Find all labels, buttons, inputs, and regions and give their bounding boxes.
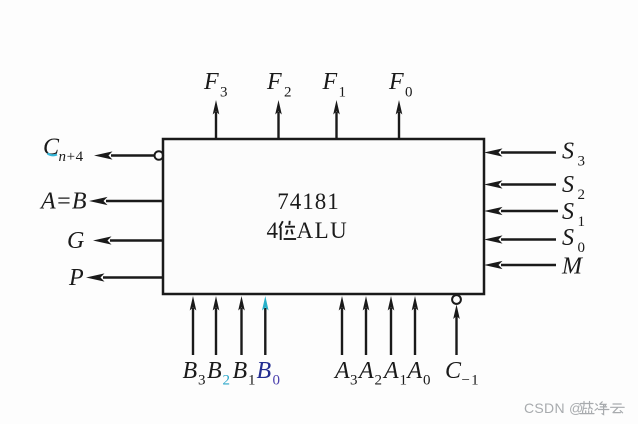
svg-text:2: 2 (578, 187, 586, 203)
output P: wire, arrowhead, label (86, 273, 163, 281)
svg-text:B: B (233, 358, 248, 384)
svg-text:1: 1 (339, 85, 347, 101)
svg-text:1: 1 (578, 214, 586, 230)
input C-1: wire, arrowhead, label (453, 305, 460, 356)
svg-text:A=B: A=B (39, 189, 87, 215)
svg-text:B: B (183, 358, 198, 384)
svg-text:M: M (561, 254, 584, 280)
svg-text:3: 3 (578, 154, 586, 170)
svg-text:A: A (333, 358, 350, 384)
output Cn+4: wire, arrowhead, label (94, 151, 155, 159)
净 (595, 402, 609, 415)
op-amp U1 74181 ALU box (163, 139, 484, 294)
svg-text:1: 1 (248, 373, 256, 389)
input A1: wire, arrowhead, label (388, 296, 395, 355)
svg-text:2: 2 (375, 373, 383, 389)
inverter bubble on Cn+4 output (155, 151, 164, 160)
inverter bubble on C-1 input (452, 295, 461, 304)
input S3: wire, arrowhead, label (484, 148, 556, 156)
output G: wire, arrowhead, label (93, 236, 163, 244)
input S0: wire, arrowhead, label (484, 235, 556, 243)
svg-text:F: F (388, 69, 404, 95)
input B3: wire, arrowhead, label (190, 296, 197, 355)
svg-text:F: F (203, 69, 219, 95)
svg-text:4: 4 (267, 218, 279, 243)
svg-text:B: B (207, 358, 222, 384)
svg-text:0: 0 (273, 373, 281, 389)
value label 4位ALU (267, 218, 349, 243)
svg-text:3: 3 (350, 373, 358, 389)
svg-text:CSDN @: CSDN @ (524, 400, 584, 416)
output A=B: wire, arrowhead, label (89, 197, 163, 205)
svg-text:n+4: n+4 (59, 149, 84, 165)
svg-text:C: C (43, 135, 60, 161)
svg-text:−1: −1 (462, 373, 480, 389)
svg-text:A: A (406, 358, 423, 384)
input B2: wire, arrowhead, label (213, 296, 220, 355)
svg-text:S: S (562, 199, 574, 225)
input B0: wire, arrowhead, label (262, 296, 269, 355)
svg-text:A: A (357, 358, 374, 384)
svg-text:B: B (257, 358, 272, 384)
svg-text:A: A (382, 358, 399, 384)
蓝 (580, 402, 594, 414)
svg-text:74181: 74181 (277, 189, 340, 214)
svg-text:F: F (322, 69, 338, 95)
input A0: wire, arrowhead, label (412, 296, 419, 355)
svg-text:2: 2 (284, 85, 292, 101)
svg-text:F: F (266, 69, 282, 95)
svg-text:3: 3 (220, 85, 228, 101)
svg-text:C: C (445, 358, 462, 384)
input A2: wire, arrowhead, label (363, 296, 370, 355)
input S2: wire, arrowhead, label (484, 180, 556, 188)
watermark CSDN @蓝净云 (524, 400, 624, 416)
svg-text:S: S (562, 139, 574, 165)
output F0: wire, arrowhead, label (396, 100, 403, 139)
svg-text:0: 0 (405, 85, 413, 101)
svg-text:G: G (67, 228, 84, 254)
svg-text:3: 3 (198, 373, 206, 389)
云 (611, 404, 625, 413)
input B1: wire, arrowhead, label (238, 296, 245, 355)
input A3: wire, arrowhead, label (339, 296, 346, 355)
svg-text:1: 1 (400, 373, 408, 389)
svg-text:S: S (562, 172, 574, 198)
output F1: wire, arrowhead, label (333, 100, 340, 139)
svg-text:0: 0 (423, 373, 431, 389)
output F3: wire, arrowhead, label (213, 100, 220, 139)
svg-text:ALU: ALU (297, 218, 349, 243)
svg-text:P: P (68, 265, 84, 291)
svg-text:2: 2 (223, 373, 231, 389)
svg-text:S: S (562, 225, 574, 251)
output F2: wire, arrowhead, label (275, 100, 282, 139)
input S1: wire, arrowhead, label (484, 207, 558, 215)
input M: wire, arrowhead, label (484, 261, 556, 269)
